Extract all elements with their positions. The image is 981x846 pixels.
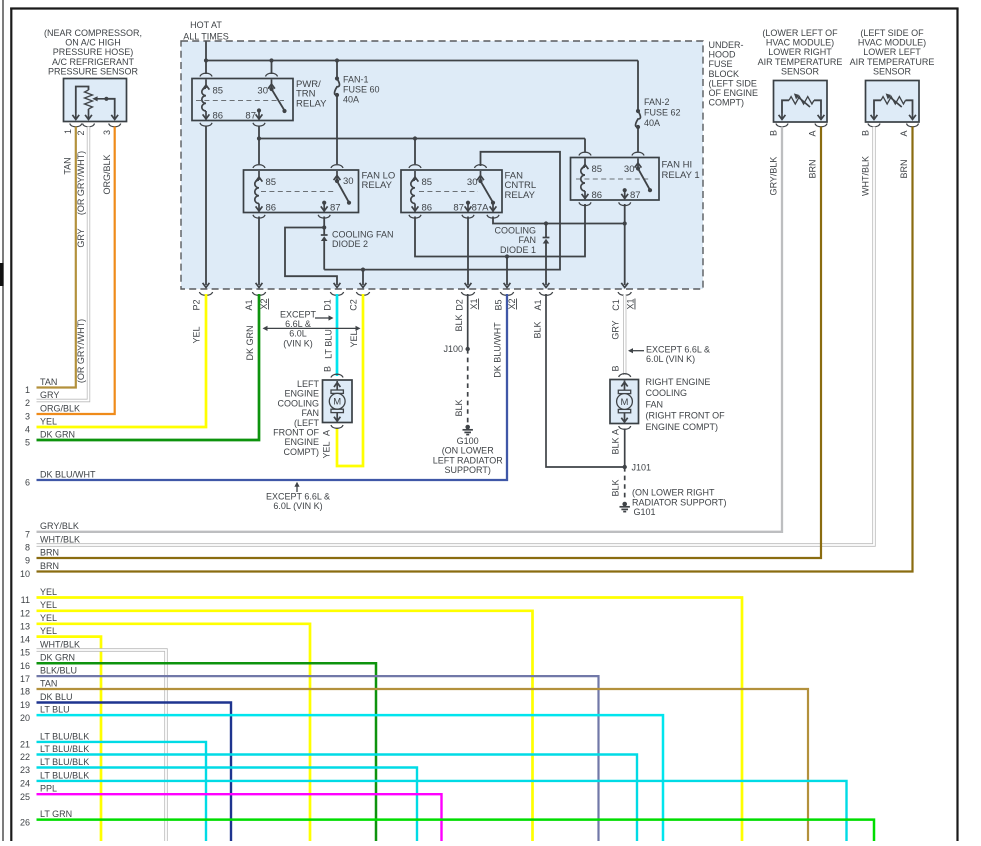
svg-text:A: A <box>808 130 818 136</box>
svg-text:(NEAR COMPRESSOR,: (NEAR COMPRESSOR, <box>44 28 142 38</box>
node wire 14 label <box>20 626 57 644</box>
svg-text:20: 20 <box>20 713 30 723</box>
svg-text:LT BLU/BLK: LT BLU/BLK <box>40 770 89 780</box>
relay FAN LO internal dashed link <box>261 191 335 193</box>
svg-text:9: 9 <box>25 556 30 566</box>
svg-text:COMPT): COMPT) <box>709 98 745 108</box>
svg-text:ON A/C HIGH: ON A/C HIGH <box>65 38 121 48</box>
node wire 24 label <box>20 770 89 788</box>
svg-text:C2: C2 <box>349 299 359 311</box>
svg-text:87: 87 <box>245 111 256 122</box>
wire bus2 to FAN LO 85 <box>258 139 260 165</box>
svg-text:TAN: TAN <box>40 377 57 387</box>
svg-text:LEFT: LEFT <box>297 379 320 389</box>
svg-text:FAN-1: FAN-1 <box>343 75 369 85</box>
svg-text:18: 18 <box>20 687 30 697</box>
svg-text:D2: D2 <box>455 299 465 311</box>
svg-text:FAN-2: FAN-2 <box>644 97 670 107</box>
svg-text:PRESSURE SENSOR: PRESSURE SENSOR <box>48 66 139 76</box>
node bus2/FAN LO 85 <box>257 136 261 140</box>
svg-text:(ON LOWER RIGHT: (ON LOWER RIGHT <box>632 488 715 498</box>
connector arc above FAN LO 85 <box>253 165 265 168</box>
svg-text:17: 17 <box>20 674 30 684</box>
fuse FAN-1 label <box>343 75 380 105</box>
fuse FAN-2 label <box>644 97 681 128</box>
label HOT AT ALL TIMES <box>183 20 229 42</box>
relay FAN HI name label <box>662 160 700 182</box>
svg-text:X2: X2 <box>259 298 269 309</box>
connector arc left fan A <box>331 425 343 428</box>
connector arc below FAN LO 86 <box>253 215 265 218</box>
svg-text:8: 8 <box>25 543 30 553</box>
wire B+ bus <box>206 60 638 62</box>
arrow P2 <box>203 283 210 288</box>
svg-text:WHT/BLK: WHT/BLK <box>861 156 871 196</box>
svg-text:COOLING: COOLING <box>646 388 688 398</box>
svg-text:87A: 87A <box>472 203 490 214</box>
node 87A/FAN HI 87 <box>623 221 627 225</box>
connector arc below FAN HI 87 <box>619 202 631 205</box>
wire FAN CNTRL 86 to FAN HI 86 <box>415 204 585 257</box>
svg-text:1: 1 <box>25 385 30 395</box>
wire BLK J101 to G101 (dashed) <box>624 467 626 501</box>
wire 23 <box>37 768 418 842</box>
node wire 13 label <box>20 613 57 631</box>
svg-text:SENSOR: SENSOR <box>781 66 820 76</box>
label EXCEPT 6.6L (VIN K) right <box>646 345 710 365</box>
svg-text:FAN: FAN <box>518 235 536 245</box>
svg-text:RELAY: RELAY <box>362 180 393 191</box>
svg-text:86: 86 <box>422 203 433 214</box>
relay FAN CNTRL coil 85->86 <box>411 171 419 212</box>
svg-text:B5: B5 <box>494 299 504 310</box>
relay FAN HI switch pin 30 <box>635 159 653 193</box>
svg-text:RELAY: RELAY <box>505 190 536 201</box>
node wire 20 label <box>20 705 70 723</box>
wire 19 <box>37 703 232 842</box>
relay PWR/TRN switch pin 87 <box>256 108 263 119</box>
motor right engine cooling fan <box>610 380 639 424</box>
node wire 18 label <box>20 678 57 696</box>
svg-text:TAN: TAN <box>40 678 57 688</box>
wire 13 <box>37 624 311 841</box>
svg-text:LT BLU/BLK: LT BLU/BLK <box>40 757 89 767</box>
svg-text:ENGINE COMPT): ENGINE COMPT) <box>646 422 719 432</box>
svg-text:6.0L (VIN K): 6.0L (VIN K) <box>273 501 322 511</box>
wire 12 <box>37 611 533 841</box>
svg-text:WHT/BLK: WHT/BLK <box>40 534 80 544</box>
node bus/PWR-TRN 85 <box>204 58 208 62</box>
label COOLING FAN DIODE 2 <box>332 230 394 250</box>
relay FAN HI switch pin 87 <box>621 188 628 199</box>
svg-text:86: 86 <box>213 111 224 122</box>
svg-text:BRN: BRN <box>899 159 909 178</box>
svg-text:J101: J101 <box>632 463 652 473</box>
svg-text:FUSE 60: FUSE 60 <box>343 85 380 95</box>
svg-text:BLOCK: BLOCK <box>709 69 740 79</box>
wire 26 <box>37 820 875 841</box>
svg-text:BRN: BRN <box>40 547 59 557</box>
svg-text:(ON LOWER: (ON LOWER <box>442 446 495 456</box>
svg-text:COOLING: COOLING <box>277 398 319 408</box>
svg-text:GRY: GRY <box>611 320 621 339</box>
wire FAN CNTRL 87A to junction <box>493 217 625 224</box>
underhood fuse block outline <box>181 41 703 289</box>
svg-text:ALL TIMES: ALL TIMES <box>183 32 229 42</box>
svg-text:6.0L: 6.0L <box>289 329 307 339</box>
connector arc above FAN CNTRL 30 <box>475 165 487 168</box>
wire 18 <box>37 689 809 841</box>
svg-text:ORG/BLK: ORG/BLK <box>102 154 112 194</box>
connector arc pin at x=507 <box>500 292 513 295</box>
svg-text:LT BLU/BLK: LT BLU/BLK <box>40 744 89 754</box>
wire BLK A1 to J101 <box>546 294 625 467</box>
svg-text:AIR TEMPERATURE: AIR TEMPERATURE <box>850 57 935 67</box>
wire 21 <box>37 742 207 841</box>
node bus/FAN-1 fuse <box>335 58 339 62</box>
svg-text:YEL: YEL <box>40 626 57 636</box>
wire branch to D1 <box>285 228 337 286</box>
svg-text:LOWER RIGHT: LOWER RIGHT <box>768 47 832 57</box>
page frame left bar mark <box>0 263 4 286</box>
node diode2 line / C2 branch <box>361 268 365 272</box>
svg-text:BLK: BLK <box>533 321 543 338</box>
svg-text:OF ENGINE: OF ENGINE <box>709 88 759 98</box>
sensor internal pin2 lead <box>88 109 90 120</box>
svg-text:A1: A1 <box>244 299 254 310</box>
label G101 area <box>632 488 727 517</box>
wire branch to B5 <box>506 257 508 286</box>
connector arc below FAN CNTRL 86 <box>409 215 421 218</box>
svg-text:LEFT RADIATOR: LEFT RADIATOR <box>433 455 504 465</box>
svg-text:FUSE 62: FUSE 62 <box>644 108 681 118</box>
node wire 9 label <box>25 547 59 565</box>
svg-text:30: 30 <box>257 86 268 97</box>
node 86 bus / B5 branch <box>505 254 509 258</box>
sensor internal wiper <box>92 96 118 119</box>
relay PWR/TRN internal dashed link <box>196 100 284 102</box>
svg-text:BLK: BLK <box>454 399 464 416</box>
wire bus to relay pin 30 <box>271 61 273 75</box>
connector arc below FAN HI 86 <box>579 202 591 205</box>
svg-text:X1: X1 <box>469 298 479 309</box>
svg-text:DK GRN: DK GRN <box>40 429 75 439</box>
svg-text:C1: C1 <box>611 299 621 311</box>
svg-text:2: 2 <box>76 130 86 135</box>
node wire 21 label <box>20 731 89 749</box>
svg-text:DK BLU/WHT: DK BLU/WHT <box>40 469 96 479</box>
connector arc above FAN CNTRL 85 <box>409 165 421 168</box>
page frame left thin line <box>2 0 4 841</box>
label A/C refrigerant pressure sensor <box>44 28 142 76</box>
label EXCEPT 6.6L 6.0L (VIN K) bottom <box>266 492 330 512</box>
label EXCEPT 6.6L 6.0L (VIN K) left <box>280 310 317 349</box>
relay PWR/TRN switch pin 30 <box>268 80 287 114</box>
connector arc pin at x=468 <box>461 292 474 295</box>
page frame left border <box>10 8 12 842</box>
connector arc below PWR/TRN 86 <box>200 123 212 126</box>
svg-text:12: 12 <box>20 609 30 619</box>
svg-text:85: 85 <box>213 86 224 97</box>
svg-text:LT BLU/BLK: LT BLU/BLK <box>40 731 89 741</box>
arrow to GRY <box>631 350 644 352</box>
svg-text:A: A <box>322 430 332 436</box>
node wire 12 label <box>20 600 57 618</box>
svg-text:FAN: FAN <box>301 408 319 418</box>
fuse FAN-2 FUSE 62 40A <box>636 109 640 113</box>
svg-text:EXCEPT 6.6L &: EXCEPT 6.6L & <box>266 492 330 502</box>
svg-text:M: M <box>621 397 629 408</box>
svg-text:HOT AT: HOT AT <box>190 20 222 30</box>
svg-text:PRESSURE HOSE): PRESSURE HOSE) <box>53 47 134 57</box>
svg-text:G101: G101 <box>634 507 656 517</box>
svg-text:26: 26 <box>20 817 30 827</box>
wire bus2 to FAN CNTRL 85 <box>414 139 416 165</box>
wire LT BLU D1 to left fan B <box>336 294 339 376</box>
svg-text:3: 3 <box>25 412 30 422</box>
node FAN LO 87 / D1 branch <box>322 225 326 229</box>
relay FAN CNTRL switch pin 87 <box>465 201 472 212</box>
svg-text:(VIN K): (VIN K) <box>283 338 313 348</box>
svg-text:86: 86 <box>592 190 603 201</box>
connector arc above PWR/TRN 85 <box>200 73 212 76</box>
svg-text:HVAC MODULE): HVAC MODULE) <box>766 38 834 48</box>
wire FAN HI 87 to C1 <box>624 204 626 285</box>
svg-text:B: B <box>769 130 779 136</box>
wire 15 <box>37 650 167 841</box>
svg-text:85: 85 <box>592 164 603 175</box>
svg-text:22: 22 <box>20 752 30 762</box>
svg-text:BRN: BRN <box>808 159 818 178</box>
svg-text:GRY: GRY <box>76 228 86 247</box>
svg-text:1: 1 <box>63 129 73 134</box>
svg-text:7: 7 <box>25 530 30 540</box>
svg-text:ENGINE: ENGINE <box>284 437 319 447</box>
svg-text:40A: 40A <box>343 95 359 105</box>
svg-text:6.0L (VIN K): 6.0L (VIN K) <box>646 354 695 364</box>
svg-text:ORG/BLK: ORG/BLK <box>40 403 80 413</box>
wire FAN-1 fuse to FAN LO 30 <box>336 95 338 164</box>
wire branch to C2 <box>362 270 364 285</box>
wire BRN sensor1 A to list 9 <box>37 127 822 559</box>
svg-text:(OR GRY/WHT): (OR GRY/WHT) <box>76 151 86 215</box>
svg-text:(LEFT SIDE OF: (LEFT SIDE OF <box>860 28 924 38</box>
svg-text:YEL: YEL <box>349 330 359 347</box>
relay FAN HI coil 85->86 <box>581 159 589 200</box>
wire GRY sensor pin2 to list 2 <box>37 127 89 401</box>
svg-text:B: B <box>323 366 333 372</box>
svg-text:25: 25 <box>20 792 30 802</box>
node wire 8 label <box>25 534 80 552</box>
node wire 11 label <box>21 587 57 605</box>
relay FAN LO name label <box>362 171 396 192</box>
svg-text:UNDER-: UNDER- <box>709 40 744 50</box>
connector arc below PWR/TRN 87 <box>253 123 265 126</box>
svg-text:RELAY 1: RELAY 1 <box>662 170 700 181</box>
wire 11 <box>37 598 743 842</box>
wire FAN LO 87 junction <box>323 217 325 231</box>
svg-text:FUSE: FUSE <box>709 59 733 69</box>
wire FAN-2 fuse to FAN HI 30 <box>637 127 639 152</box>
wire DK GRN A1 to list 5 <box>37 294 260 440</box>
node bus2/FAN CNTRL 85 <box>413 136 417 140</box>
svg-text:GRY/BLK: GRY/BLK <box>769 157 779 196</box>
relay PWR/TRN coil pin 85->86 <box>202 80 210 120</box>
relay FAN CNTRL switch pin 87A <box>490 203 497 212</box>
wire YEL P2 to list 4 <box>37 294 207 427</box>
svg-text:14: 14 <box>20 634 30 644</box>
wire BLK right fan A to J101 <box>624 429 626 468</box>
svg-text:30: 30 <box>624 164 635 175</box>
svg-text:DK BLU/WHT: DK BLU/WHT <box>493 322 503 378</box>
svg-text:DK GRN: DK GRN <box>245 325 255 360</box>
label left fan <box>273 379 319 457</box>
svg-text:5: 5 <box>25 438 30 448</box>
wire bus to FAN-1 fuse <box>336 61 338 79</box>
relay FAN LO coil 85->86 <box>255 171 263 212</box>
svg-text:YEL: YEL <box>40 416 57 426</box>
connector arc left fan B <box>331 374 343 377</box>
node wire 19 label <box>20 692 73 710</box>
wire 24 <box>37 781 847 841</box>
relay FAN CNTRL internal dashed link <box>419 191 478 193</box>
svg-text:EXCEPT 6.6L &: EXCEPT 6.6L & <box>646 345 710 355</box>
svg-text:87: 87 <box>630 190 641 201</box>
relay FAN CNTRL name label <box>505 171 537 201</box>
connector arc below FAN CNTRL 87A <box>487 215 499 218</box>
node bus/PWR-TRN 30 <box>269 58 273 62</box>
wire WHT/BLK sensor2 B to list 8 <box>37 127 875 546</box>
connector arc pin at x=624.7 <box>618 292 631 295</box>
svg-text:(RIGHT FRONT OF: (RIGHT FRONT OF <box>646 411 726 421</box>
svg-text:LT BLU: LT BLU <box>40 705 70 715</box>
wire 16 <box>37 663 377 841</box>
node wire 17 label <box>20 666 77 684</box>
node J100 <box>466 347 470 351</box>
svg-text:FRONT OF: FRONT OF <box>273 428 319 438</box>
svg-text:COOLING: COOLING <box>494 226 536 236</box>
ground G100 <box>465 425 470 430</box>
svg-text:PPL: PPL <box>40 784 57 794</box>
svg-text:AIR TEMPERATURE: AIR TEMPERATURE <box>758 57 843 67</box>
connector arc above PWR/TRN 30 <box>266 73 278 76</box>
svg-text:TAN: TAN <box>63 157 73 174</box>
wire BLK D2 to J100 <box>467 294 469 349</box>
svg-text:87: 87 <box>330 203 341 214</box>
svg-text:YEL: YEL <box>322 441 332 458</box>
svg-text:FAN HI: FAN HI <box>662 160 693 171</box>
svg-text:RELAY: RELAY <box>296 98 327 109</box>
node wire 6 label <box>25 469 96 487</box>
sensor internal pin1 lead <box>76 87 89 114</box>
sensor A/C pressure box <box>64 79 127 122</box>
svg-text:30: 30 <box>343 176 354 187</box>
svg-text:23: 23 <box>20 765 30 775</box>
svg-text:SENSOR: SENSOR <box>873 66 912 76</box>
svg-text:J100: J100 <box>443 344 463 354</box>
wire YEL C2 to left fan A <box>337 294 363 466</box>
connector arc right fan A <box>619 426 631 429</box>
relay FAN HI box <box>571 158 660 201</box>
page frame right border <box>956 9 958 842</box>
svg-text:COOLING FAN: COOLING FAN <box>332 230 394 240</box>
svg-text:LOWER LEFT: LOWER LEFT <box>863 47 921 57</box>
svg-text:15: 15 <box>20 648 30 658</box>
wire 14 <box>37 637 102 841</box>
page frame top border <box>10 7 958 9</box>
node wire 3 label <box>25 403 80 421</box>
node wire 22 label <box>20 744 89 762</box>
svg-text:6: 6 <box>25 478 30 488</box>
svg-text:G100: G100 <box>457 436 479 446</box>
ground G101 <box>622 502 627 507</box>
svg-text:BRN: BRN <box>40 561 59 571</box>
node wire 25 label <box>20 784 57 802</box>
svg-text:(OR GRY/WHT): (OR GRY/WHT) <box>76 319 86 383</box>
svg-text:(LEFT SIDE: (LEFT SIDE <box>709 78 757 88</box>
svg-text:BLK: BLK <box>611 479 621 496</box>
svg-text:B: B <box>611 365 621 371</box>
svg-text:BLK: BLK <box>454 314 464 331</box>
svg-text:YEL: YEL <box>192 326 202 343</box>
wire 17 <box>37 676 599 841</box>
wire battery feed stub <box>205 42 207 61</box>
node wire 7 label <box>25 521 79 539</box>
wire bus2 to FAN HI 85 <box>584 139 586 153</box>
svg-text:YEL: YEL <box>40 613 57 623</box>
connector arcs below sensor <box>70 124 82 127</box>
node J101 <box>623 465 627 469</box>
svg-text:ENGINE: ENGINE <box>284 389 319 399</box>
svg-text:4: 4 <box>25 425 30 435</box>
node wire 5 label <box>25 429 75 447</box>
connector arc above FAN LO 30 <box>331 165 343 168</box>
svg-text:SUPPORT): SUPPORT) <box>445 465 491 475</box>
wire TAN sensor pin1 to list 1 <box>37 127 76 388</box>
connector arc below FAN CNTRL 87 <box>462 215 474 218</box>
wire FAN LO 86 to A1 <box>258 217 260 286</box>
relay FAN LO box <box>244 170 359 213</box>
svg-text:16: 16 <box>20 661 30 671</box>
wire diode2 to FAN CNTRL 30 <box>324 152 560 270</box>
svg-text:LT BLU: LT BLU <box>324 329 334 359</box>
wire 25 <box>37 794 442 841</box>
svg-text:19: 19 <box>20 700 30 710</box>
svg-text:(LOWER LEFT OF: (LOWER LEFT OF <box>762 28 838 38</box>
svg-text:DK GRN: DK GRN <box>40 653 75 663</box>
svg-text:GRY: GRY <box>40 390 59 400</box>
svg-text:M: M <box>333 397 341 408</box>
svg-text:13: 13 <box>20 622 30 632</box>
node wire 26 label <box>20 809 72 827</box>
svg-text:YEL: YEL <box>40 600 57 610</box>
wire DK BLU/WHT B5 to list 6 <box>37 294 508 480</box>
connector arc right fan B <box>619 374 631 377</box>
svg-text:COMPT): COMPT) <box>284 447 320 457</box>
sensor internal resistor <box>85 90 93 109</box>
svg-text:11: 11 <box>21 595 30 605</box>
node 87A/diode1 <box>544 221 548 225</box>
wire 20 <box>37 715 664 841</box>
svg-text:85: 85 <box>422 177 433 188</box>
wire ORG/BLK sensor pin3 to list 3 <box>37 127 115 415</box>
connector arc pin at x=337 <box>330 292 343 295</box>
label G100 <box>433 436 504 475</box>
svg-text:RIGHT ENGINE: RIGHT ENGINE <box>646 377 711 387</box>
svg-text:3: 3 <box>102 130 112 135</box>
svg-text:RADIATOR SUPPORT): RADIATOR SUPPORT) <box>632 497 727 507</box>
wire GRY/BLK sensor1 B to list 7 <box>37 127 783 532</box>
